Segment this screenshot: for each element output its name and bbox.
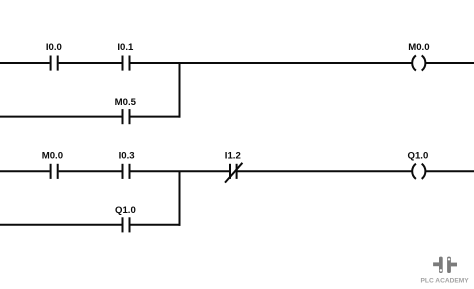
wire M0.0 to I0.3 (59, 170, 122, 172)
wire coil M0.0 to right edge (425, 62, 474, 64)
svg-text:I0.1: I0.1 (117, 42, 134, 53)
svg-text:I1.2: I1.2 (225, 151, 241, 162)
wire I0.3 to contact I1.2 through node B (130, 170, 229, 172)
contact Q1.0 (123, 217, 130, 232)
wire rung2 left rail to contact M0.0 (0, 170, 50, 172)
wire vertical branch2 to node B (179, 171, 181, 226)
PLC Academy logo mark (433, 257, 457, 273)
wire I0.1 to coil M0.0 through node A (130, 62, 412, 64)
wire I0.0 to I0.1 (59, 62, 122, 64)
svg-text:Q1.0: Q1.0 (115, 205, 136, 216)
svg-text:PLC ACADEMY: PLC ACADEMY (421, 278, 470, 285)
coil Q1.0 (412, 164, 425, 179)
wire coil Q1.0 to right edge (425, 170, 474, 172)
wire M0.5 to branch1 corner (130, 116, 180, 118)
contact I0.1 (123, 56, 130, 71)
coil M0.0 (412, 55, 425, 70)
wire rung1 left rail to contact I0.0 (0, 62, 50, 64)
svg-text:I0.3: I0.3 (119, 151, 135, 162)
contact M0.0 (51, 164, 58, 179)
contact I0.3 (123, 164, 130, 179)
wire vertical branch1 to node A (179, 62, 181, 117)
svg-text:M0.0: M0.0 (42, 151, 63, 162)
wire I1.2 to coil Q1.0 (238, 170, 413, 172)
svg-text:M0.0: M0.0 (408, 42, 429, 53)
svg-text:I0.0: I0.0 (46, 42, 62, 53)
wire Q1.0 to branch2 corner (130, 224, 180, 226)
svg-text:M0.5: M0.5 (115, 97, 137, 108)
contact I1.2 normally closed (225, 163, 242, 183)
wire branch1 left rail to contact M0.5 (0, 116, 122, 118)
svg-text:Q1.0: Q1.0 (407, 151, 428, 162)
contact I0.0 (51, 56, 58, 71)
wire branch2 left rail to contact Q1.0 (0, 224, 122, 226)
contact M0.5 (123, 109, 130, 124)
